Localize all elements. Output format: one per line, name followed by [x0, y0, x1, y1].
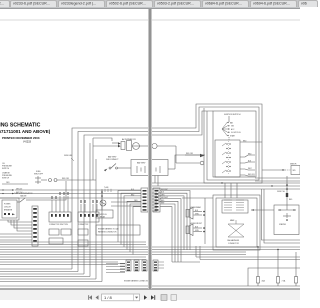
svg-text:BAT: BAT	[230, 121, 233, 124]
svg-text:FUSE LINK: FUSE LINK	[64, 155, 73, 157]
connector junction block 2	[78, 200, 99, 226]
svg-text:IGNITION SWITCH: IGNITION SWITCH	[224, 114, 241, 116]
svg-text:SENSOR: SENSOR	[290, 164, 297, 166]
horn feed wire	[182, 198, 213, 244]
lower bus wires left page	[0, 242, 300, 265]
svg-text:BLK: BLK	[161, 192, 164, 194]
svg-text:1 / 8: 1 / 8	[104, 295, 113, 300]
bottom-left nested wire staircase	[0, 269, 102, 282]
left terminal rows	[0, 188, 141, 194]
svg-text:WHT: WHT	[161, 203, 164, 205]
svg-text:GRN/WHT: GRN/WHT	[161, 197, 168, 199]
horn rear	[186, 206, 205, 219]
right page edge pin labels	[152, 193, 162, 212]
engine-to-cab harness connector label box	[96, 225, 140, 235]
svg-text:SWITCH: SWITCH	[2, 168, 10, 170]
oil pressure switch labels	[2, 163, 13, 170]
svg-text:V-0233: V-0233	[23, 141, 32, 144]
center connector strip left	[141, 188, 148, 212]
wire columns left-middle	[64, 143, 102, 282]
center harness box	[213, 195, 260, 250]
svg-text:CAB HARNESS: CAB HARNESS	[227, 239, 240, 242]
battery disconnect switch	[104, 156, 131, 172]
wire harness staircase to ignition switch (3 nested wires)	[72, 104, 213, 274]
svg-text:STARTER: STARTER	[279, 223, 287, 226]
schematic bottom border	[0, 286, 300, 289]
svg-text:RED 203: RED 203	[248, 174, 255, 176]
svg-text:ACC: ACC	[231, 128, 235, 131]
svg-text:CONNECTOR JUNCTION: CONNECTOR JUNCTION	[49, 224, 69, 226]
left page staircase from buses up to center connector	[118, 189, 141, 255]
glow plug column components	[96, 186, 113, 218]
speed sensor box right edge	[290, 164, 300, 175]
vertical connector strip	[32, 206, 38, 246]
fuse panel box bottom right	[248, 268, 300, 286]
wires from left into ignition area	[176, 146, 204, 165]
right page top bus wires	[152, 182, 300, 189]
svg-text:T A B: T A B	[104, 186, 109, 189]
page seam between left and right page	[148, 9, 152, 289]
right open box	[251, 205, 299, 235]
right page vertical drops to fuse panel	[196, 246, 300, 260]
connector junction block 1	[49, 192, 71, 226]
svg-text:MAIN: MAIN	[230, 219, 235, 222]
svg-text:SPD: SPD	[293, 170, 297, 172]
small label boxes below junctions	[49, 229, 88, 246]
svg-text:GLOW PLUG: GLOW PLUG	[97, 214, 107, 216]
svg-text:HARNESS CONNECTOR: HARNESS CONNECTOR	[98, 231, 117, 234]
svg-text:DISCONNECT: DISCONNECT	[106, 159, 119, 161]
wire fan from breaker to connector strip	[0, 220, 32, 240]
bottom connector cluster	[106, 260, 150, 283]
right fuse/meter column	[277, 176, 293, 210]
svg-text:ORN: ORN	[161, 194, 164, 196]
power circuit breaker box	[0, 198, 19, 220]
svg-text:RED 185: RED 185	[186, 153, 193, 155]
svg-text:SWITCH: SWITCH	[2, 177, 10, 179]
svg-text:RED 185: RED 185	[62, 178, 69, 180]
svg-text:CONNECTOR: CONNECTOR	[78, 224, 89, 226]
title text WIRING SCHEMATIC	[0, 123, 51, 144]
center connector strip right	[153, 188, 160, 212]
svg-text:ORN: ORN	[6, 182, 9, 184]
page break between upper page row and lower page row	[0, 19, 300, 21]
wires fanning right from center connector	[160, 189, 190, 262]
right page low bus wires	[262, 189, 301, 243]
bottom connector cluster right of seam	[153, 260, 164, 271]
svg-text:ORN: ORN	[134, 200, 137, 202]
svg-text:POWER: POWER	[4, 204, 11, 206]
svg-text:RING SCHEMATIC: RING SCHEMATIC	[0, 123, 41, 129]
svg-text:SHUTOFF: SHUTOFF	[34, 173, 44, 175]
svg-text:ENGINE HARNESS CONNECTOR: ENGINE HARNESS CONNECTOR	[124, 280, 150, 283]
svg-text:N 571711001 AND ABOVE): N 571711001 AND ABOVE)	[0, 129, 51, 134]
svg-text:WHT: WHT	[248, 168, 252, 170]
fuel shutoff solenoid	[34, 171, 96, 184]
ignition switch nested boxes	[204, 104, 262, 183]
svg-text:RED/WHT: RED/WHT	[161, 189, 168, 191]
svg-text:BATTERY: BATTERY	[137, 162, 146, 165]
svg-text:START: START	[230, 134, 235, 137]
svg-text:BLK: BLK	[131, 189, 134, 191]
wire battery to ignition	[175, 154, 205, 169]
mid bus wires to center connectors	[0, 198, 141, 206]
alternator circuit	[93, 138, 176, 180]
svg-text:45A: 45A	[262, 280, 266, 283]
ignition connector pins	[215, 140, 300, 181]
svg-text:HORN REAR: HORN REAR	[190, 206, 201, 209]
svg-text:IGN: IGN	[231, 126, 235, 128]
svg-text:GLOW PLUG: GLOW PLUG	[231, 132, 241, 134]
wires into fuse panel	[172, 246, 296, 277]
svg-text:ENGINE HARNESS TO CAB: ENGINE HARNESS TO CAB	[98, 227, 119, 230]
svg-text:RED: RED	[289, 199, 293, 201]
charge pressure switch labels	[2, 172, 28, 184]
svg-text:CONNECTOR: CONNECTOR	[228, 243, 240, 245]
horn front	[186, 223, 205, 236]
ignition switch	[222, 114, 241, 140]
wires ignition box to harness box	[225, 183, 237, 198]
battery	[131, 160, 175, 187]
fuel & alternator gauge switch	[14, 181, 66, 202]
svg-text:GAUGE: GAUGE	[20, 194, 27, 197]
svg-text:PRINTED NOVEMBER 2003: PRINTED NOVEMBER 2003	[2, 136, 40, 140]
svg-text:BREAKER: BREAKER	[4, 209, 13, 212]
svg-text:FUSE 7.5A: FUSE 7.5A	[277, 190, 285, 193]
svg-text:7.5A: 7.5A	[282, 280, 286, 283]
svg-text:CIRCUIT: CIRCUIT	[4, 207, 11, 209]
